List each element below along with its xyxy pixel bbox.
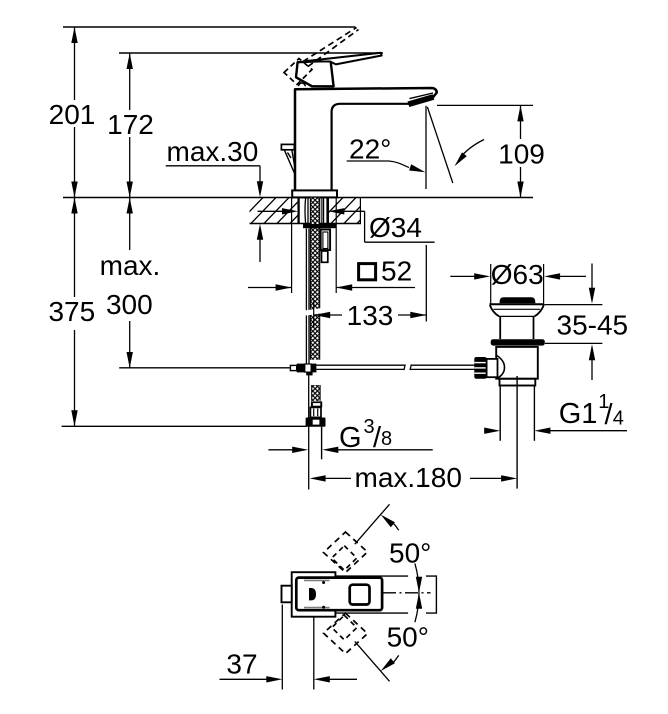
svg-text:50°: 50°	[387, 622, 429, 653]
base plate	[292, 190, 337, 197]
drain upper cylinder	[499, 316, 501, 339]
top view: gray inner lines	[304, 579, 330, 581]
center line at break	[313, 301, 315, 328]
top view: base square	[292, 572, 336, 617]
top view: 50deg diagonal line upper	[355, 504, 390, 544]
stream vertical reference line	[425, 106, 427, 189]
svg-text:Ø34: Ø34	[369, 212, 422, 243]
hose nut	[306, 418, 326, 427]
dimension 201 vertical line	[74, 27, 76, 100]
hose: thin line down from tee	[308, 375, 310, 489]
handle housing (solid)	[296, 61, 334, 87]
hose tube lines	[321, 427, 323, 460]
52 extension lines	[291, 198, 293, 294]
break symbol in shank	[302, 308, 323, 316]
top view: 50deg diagonal line lower	[355, 641, 390, 681]
wire: 172 reference line (handle height)	[119, 52, 383, 54]
drain tailpipe	[499, 386, 501, 441]
svg-text:133: 133	[347, 300, 394, 331]
dimension max.180	[310, 475, 326, 481]
counter hatch right of hole	[317, 197, 383, 225]
top view: pivot dots	[322, 581, 325, 584]
wire: max300 tick line to pop-up rod tee	[119, 367, 290, 369]
pull rod below counter	[305, 229, 307, 364]
svg-text:109: 109	[498, 139, 545, 170]
top view: left tab	[282, 586, 292, 603]
mounting nut bar	[303, 224, 337, 228]
faucet body: spout outline	[295, 88, 437, 190]
dashed handle lever lines (raised)	[303, 28, 357, 62]
wire: counter bottom line	[250, 223, 362, 225]
drain rubber seal (black band)	[491, 339, 545, 345]
22deg arc with arrow	[460, 140, 485, 159]
svg-text:8: 8	[381, 428, 392, 450]
top view: spout rectangle lines	[335, 575, 408, 577]
dimension dia63	[450, 275, 477, 277]
svg-text:max.: max.	[100, 250, 161, 281]
top view: center dash-dot line	[383, 592, 431, 594]
svg-text:50°: 50°	[389, 538, 431, 569]
wire: 375 tick line to hose nut	[62, 425, 307, 427]
drain plug cap (black lens)	[500, 297, 536, 303]
dimension 37	[281, 605, 283, 690]
svg-text:35-45: 35-45	[557, 310, 629, 341]
pop-up rod guide bracket	[321, 230, 330, 251]
svg-text:Ø63: Ø63	[491, 259, 544, 290]
drain center line	[516, 376, 518, 489]
drain flange	[490, 303, 545, 305]
label diameter 34 with leader box	[258, 210, 285, 212]
stream extension line lower	[425, 245, 427, 322]
dimension 35-45	[544, 304, 602, 306]
svg-text:max.30: max.30	[167, 136, 259, 167]
hose collar	[311, 401, 322, 407]
svg-text:375: 375	[48, 296, 95, 327]
wire: counter top line	[63, 197, 533, 199]
drain body	[496, 347, 538, 379]
faucet body right edge + spout underside	[332, 104, 412, 190]
dimension 375 vertical line	[74, 198, 76, 298]
top view: D blob	[309, 588, 316, 600]
pop-up knob on body left	[281, 144, 294, 149]
hose ferrule	[310, 407, 321, 417]
svg-text:172: 172	[107, 109, 154, 140]
hose braid (cross-hatched)	[312, 385, 320, 401]
top view: dashed squares upper (handle at 50deg)	[324, 532, 368, 573]
shank tube lines in hole	[304, 198, 307, 224]
handle foot arc	[299, 83, 306, 86]
aerator (black tilted band)	[408, 94, 435, 107]
dimension 172 vertical line	[129, 53, 131, 110]
svg-text:300: 300	[106, 289, 153, 320]
threaded shank rod (cross-hatched)	[310, 198, 319, 360]
top view: dashed squares lower	[324, 613, 368, 654]
drain body bump at rod stem	[497, 356, 505, 379]
wire: top reference line (spout raised-handle height)	[63, 26, 356, 28]
dimension max.300 vertical line	[129, 198, 131, 251]
svg-text:52: 52	[381, 256, 412, 287]
wire: counter right boundary	[359, 198, 361, 224]
dimension 109	[437, 104, 533, 106]
drain knurled knob	[474, 357, 486, 379]
top view: upper angle arc + arrows	[381, 515, 395, 528]
svg-text:37: 37	[226, 649, 257, 680]
handle lever (solid)	[304, 53, 381, 65]
svg-text:22°: 22°	[349, 134, 391, 165]
pop-up rod tee junction	[297, 364, 305, 373]
svg-text:G1: G1	[559, 398, 598, 430]
drain extension lines for dia63	[490, 264, 492, 304]
dimension 52	[248, 287, 292, 289]
stream angled line (22 deg)	[427, 107, 452, 183]
dashed handle housing (raised)	[284, 59, 312, 85]
svg-text:4: 4	[613, 408, 624, 430]
label square 52	[359, 264, 376, 280]
top view: spout end bracket	[426, 576, 436, 613]
top view: square hole	[350, 585, 370, 605]
top view: lower angle arc + arrows	[381, 658, 395, 671]
horizontal pop-up rod to drain	[316, 365, 474, 371]
dimension 133	[314, 314, 342, 316]
svg-text:max.180: max.180	[355, 462, 462, 493]
svg-text:201: 201	[49, 99, 96, 130]
drain knob stem	[487, 359, 498, 377]
drain locknut ring	[500, 379, 536, 386]
mounting hole edges in counter	[297, 198, 299, 224]
counter hatch left of hole	[237, 197, 316, 225]
top view: handle (thick rounded rect)	[296, 578, 382, 611]
